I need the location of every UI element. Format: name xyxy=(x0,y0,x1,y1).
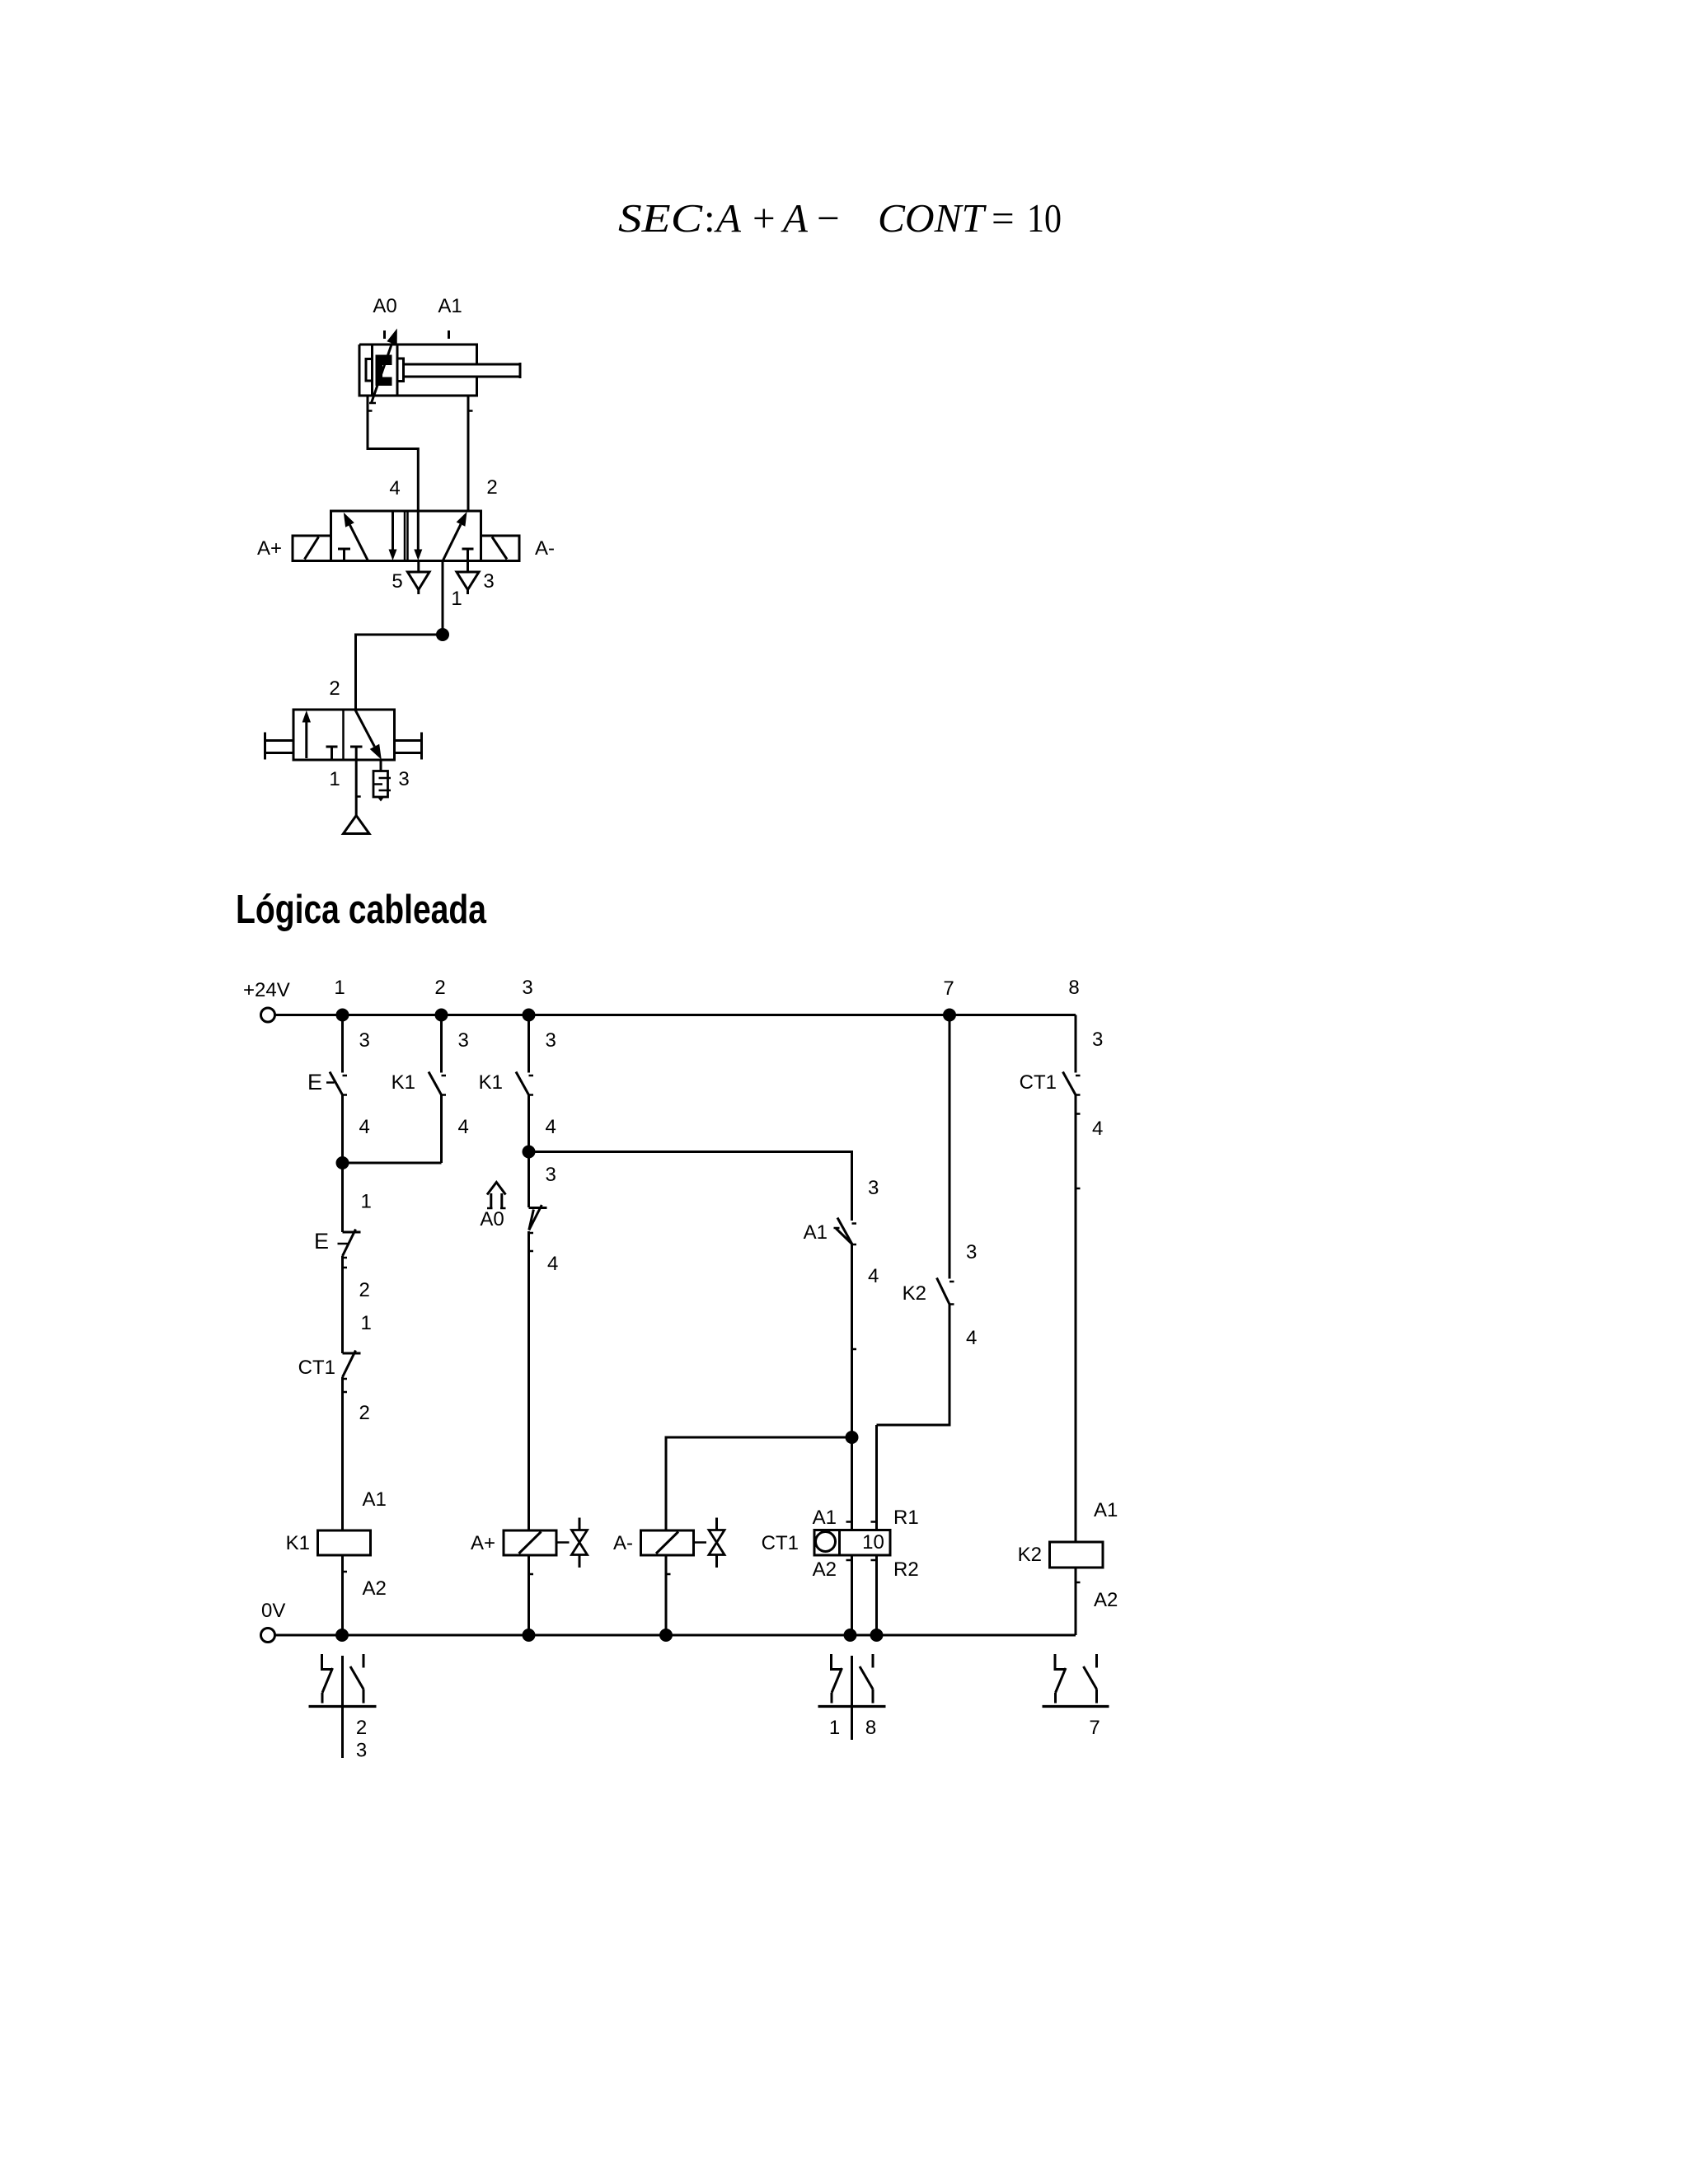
title equation SEC:A+A- CONT=10 xyxy=(618,195,1062,241)
svg-text:A1: A1 xyxy=(438,295,462,317)
wire A- coil to 0V xyxy=(665,1555,668,1635)
svg-text:A-: A- xyxy=(613,1532,633,1554)
wire valve port1 down to junction xyxy=(442,561,444,635)
counter contact CT1 NO xyxy=(1076,1075,1081,1077)
svg-text:A1: A1 xyxy=(1094,1499,1118,1521)
svg-text:4: 4 xyxy=(547,1253,558,1275)
svg-text:7: 7 xyxy=(943,977,954,1000)
svg-text:SEC: SEC xyxy=(618,195,704,241)
svg-text:8: 8 xyxy=(1068,977,1079,999)
relay contact K2 NO xyxy=(949,1281,954,1283)
cylinder A (double-acting with magnetic piston) xyxy=(359,344,520,396)
3/2 left plunger actuator xyxy=(264,733,266,760)
svg-text:1: 1 xyxy=(451,588,462,610)
svg-text:E: E xyxy=(314,1229,329,1254)
wire cylinder left port to valve port 4 xyxy=(368,396,418,550)
svg-text:A1: A1 xyxy=(813,1507,837,1529)
svg-text:3: 3 xyxy=(546,1164,556,1186)
valve solenoid A- xyxy=(641,1530,694,1555)
limit switch symbol A0 xyxy=(487,1183,506,1195)
limit switch contact A1 xyxy=(852,1222,857,1225)
3/2 right plunger actuator xyxy=(420,733,423,760)
K1 contact cross-reference mirror xyxy=(341,1656,344,1758)
wire A1-contact node to A- coil xyxy=(666,1437,852,1530)
node 0V-A+ xyxy=(523,1629,536,1642)
svg-text:3: 3 xyxy=(356,1740,367,1762)
svg-text:4: 4 xyxy=(546,1116,556,1138)
svg-text:3: 3 xyxy=(398,768,409,790)
5/2 valve right position: blocked port 3 T xyxy=(462,548,474,551)
svg-text:K1: K1 xyxy=(392,1071,415,1094)
wire xyxy=(341,1555,344,1635)
wire xyxy=(1075,1095,1077,1543)
wire branch to A1 contact xyxy=(529,1152,852,1221)
svg-text:4: 4 xyxy=(458,1116,469,1138)
svg-text:A2: A2 xyxy=(813,1558,837,1581)
counter contact CT1 NC xyxy=(343,1352,361,1355)
svg-text:A-: A- xyxy=(535,537,555,560)
svg-text:0V: 0V xyxy=(261,1600,285,1622)
svg-text:1: 1 xyxy=(829,1717,840,1739)
wire self-hold branch xyxy=(343,1162,442,1165)
svg-text:2: 2 xyxy=(359,1279,370,1301)
wire xyxy=(440,1095,443,1164)
valve solenoid A+ xyxy=(504,1530,556,1555)
wire A+ coil to 0V xyxy=(527,1555,530,1635)
svg-text:10: 10 xyxy=(862,1531,884,1554)
svg-text:R1: R1 xyxy=(893,1507,919,1529)
wire to A+ coil xyxy=(527,1231,530,1530)
node rung3-branch xyxy=(523,1146,536,1159)
svg-text:K2: K2 xyxy=(1018,1544,1042,1566)
svg-text:4: 4 xyxy=(389,477,400,499)
svg-text:A2: A2 xyxy=(363,1577,387,1600)
pilot/solenoid actuator A- xyxy=(481,536,520,561)
svg-text:5: 5 xyxy=(392,570,402,593)
svg-text:−: − xyxy=(817,195,840,241)
node 0V-A- xyxy=(659,1629,673,1642)
svg-text:R2: R2 xyxy=(893,1558,919,1581)
relay contact K1 NO (rung3) xyxy=(529,1075,534,1077)
wire cylinder right port to valve port 2 xyxy=(467,396,470,511)
pilot/solenoid actuator A+ xyxy=(293,536,331,561)
sensor mark A0 xyxy=(383,330,386,339)
wire K2 coil to 0V xyxy=(1075,1568,1077,1635)
svg-text:1: 1 xyxy=(329,768,340,790)
svg-text:1: 1 xyxy=(361,1191,372,1213)
A+ valve indicator xyxy=(556,1541,570,1544)
3/2 left position: up arrow xyxy=(305,722,307,758)
port 3 silencer xyxy=(380,760,382,771)
wire rung8 xyxy=(1075,1015,1077,1073)
pushbutton E NO contact xyxy=(343,1075,348,1077)
5/2 valve left position: down arrow xyxy=(392,511,394,550)
CT1 contact cross-reference mirror xyxy=(851,1656,853,1740)
wire xyxy=(341,1256,344,1353)
5/2 valve right position: 1 to 2 arrow xyxy=(443,524,461,560)
svg-text:A: A xyxy=(714,195,742,241)
node 0V-CT1A2 xyxy=(844,1629,857,1642)
svg-text:2: 2 xyxy=(434,977,445,999)
wire K2 contact to counter R1 xyxy=(877,1305,950,1426)
svg-text:3: 3 xyxy=(546,1029,556,1052)
svg-text:3: 3 xyxy=(522,977,532,999)
node 0V-K1 xyxy=(335,1629,349,1642)
node rail-7 xyxy=(943,1009,956,1022)
svg-text:4: 4 xyxy=(1092,1118,1103,1140)
svg-text:CT1: CT1 xyxy=(1020,1071,1057,1094)
wire rung1 top xyxy=(341,1015,344,1073)
svg-text:Lógica cableada: Lógica cableada xyxy=(236,888,487,932)
relay contact K1 NO (rung2) xyxy=(442,1075,447,1077)
wire rung3 xyxy=(527,1015,530,1073)
node self-hold xyxy=(336,1156,349,1169)
svg-text:3: 3 xyxy=(483,570,494,593)
svg-text::: : xyxy=(704,195,715,241)
svg-text:3: 3 xyxy=(966,1241,977,1263)
svg-text:1: 1 xyxy=(334,977,345,999)
5/2 valve right position: down arrow (port4 wire) xyxy=(414,550,422,561)
svg-text:A1: A1 xyxy=(363,1488,387,1511)
svg-text:4: 4 xyxy=(359,1116,370,1138)
svg-text:4: 4 xyxy=(966,1327,977,1349)
wire xyxy=(341,1163,344,1232)
svg-text:K1: K1 xyxy=(286,1532,310,1554)
svg-text:2: 2 xyxy=(486,476,497,499)
sensor mark A1 xyxy=(448,330,450,339)
svg-text:A0: A0 xyxy=(480,1208,504,1230)
K2 contact cross-reference mirror xyxy=(1055,1654,1066,1670)
svg-text:K1: K1 xyxy=(479,1071,503,1094)
svg-text:A2: A2 xyxy=(1094,1589,1118,1611)
node A- feed xyxy=(846,1431,859,1444)
node rail-1 xyxy=(336,1009,349,1022)
svg-text:3: 3 xyxy=(1092,1029,1103,1051)
svg-text:+24V: +24V xyxy=(243,979,290,1001)
wire K2 branch down to counter R1 xyxy=(875,1425,878,1530)
svg-text:2: 2 xyxy=(359,1402,370,1424)
svg-text:7: 7 xyxy=(1089,1717,1100,1739)
svg-text:CT1: CT1 xyxy=(762,1532,799,1554)
svg-text:8: 8 xyxy=(865,1717,876,1739)
wire xyxy=(341,1095,344,1164)
exhaust port 5 xyxy=(417,561,420,573)
svg-text:E: E xyxy=(307,1070,322,1094)
svg-text:CT1: CT1 xyxy=(298,1357,335,1379)
svg-text:2: 2 xyxy=(356,1717,367,1739)
wire counter R2 to 0V xyxy=(875,1555,878,1635)
svg-text:3: 3 xyxy=(868,1177,879,1199)
port 1 supply line and source triangle xyxy=(355,760,358,815)
node rail-3 xyxy=(523,1009,536,1022)
svg-text:A1: A1 xyxy=(804,1221,828,1244)
svg-text:CONT: CONT xyxy=(878,195,987,241)
svg-text:A0: A0 xyxy=(373,295,396,317)
svg-text:2: 2 xyxy=(329,677,340,700)
wire xyxy=(527,1095,530,1152)
wire junction to 3/2 valve port 2 xyxy=(356,635,443,710)
svg-text:4: 4 xyxy=(868,1265,879,1287)
svg-text:K2: K2 xyxy=(903,1282,926,1305)
node rail-2 xyxy=(435,1009,448,1022)
3/2 right position: 2 to 3 arrow xyxy=(355,710,375,747)
svg-text:1: 1 xyxy=(361,1312,372,1334)
wire A1 contact down to counter xyxy=(851,1244,853,1530)
wire rung2 xyxy=(440,1015,443,1073)
pushbutton E NC contact xyxy=(343,1231,361,1234)
wire counter A2 to 0V xyxy=(851,1555,853,1635)
limit switch contact A0 xyxy=(529,1207,547,1209)
svg-text:+: + xyxy=(753,195,776,241)
3/2 right position: blocked port1 T xyxy=(350,746,363,748)
svg-text:3: 3 xyxy=(458,1029,469,1052)
wire rung7 xyxy=(949,1015,951,1279)
svg-text:=: = xyxy=(992,195,1015,241)
stroke arrow through piston xyxy=(372,343,392,403)
5/2-way valve xyxy=(331,511,481,561)
exhaust port 3 xyxy=(467,561,469,573)
5/2 valve left position: passage arrow xyxy=(349,525,368,560)
svg-text:A+: A+ xyxy=(471,1532,495,1554)
node 0V-CT1R2 xyxy=(870,1629,884,1642)
5/2 valve left position: blocked port T xyxy=(338,548,350,551)
svg-text:A: A xyxy=(781,195,809,241)
relay coil K1 xyxy=(318,1530,371,1555)
svg-text:10: 10 xyxy=(1027,195,1062,241)
wire xyxy=(341,1377,344,1530)
wire xyxy=(527,1152,530,1208)
svg-text:3: 3 xyxy=(359,1029,370,1052)
svg-text:A+: A+ xyxy=(257,537,282,560)
A- valve indicator xyxy=(694,1541,707,1544)
3/2 left position: blocked T xyxy=(326,746,338,748)
relay coil K2 xyxy=(1050,1542,1104,1568)
junction node xyxy=(436,628,449,641)
3/2-way valve xyxy=(293,710,395,760)
